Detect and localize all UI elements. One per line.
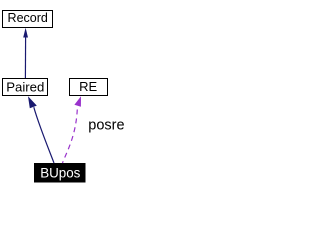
node BUpos bbox=[34, 163, 86, 183]
svg-text:Record: Record bbox=[8, 11, 48, 25]
node RE bbox=[70, 79, 108, 96]
svg-text:BUpos: BUpos bbox=[40, 165, 80, 180]
svg-text:RE: RE bbox=[79, 79, 97, 94]
node Record bbox=[3, 11, 53, 28]
edge BUpos->Paired (solid inheritance arrow) bbox=[28, 96, 54, 163]
node Paired bbox=[3, 79, 48, 96]
edge BUpos->RE (dashed usage arrow) bbox=[63, 96, 82, 163]
edge Paired->Record (solid inheritance arrow) bbox=[23, 28, 28, 78]
svg-text:posre: posre bbox=[88, 118, 124, 134]
svg-text:Paired: Paired bbox=[6, 79, 44, 94]
